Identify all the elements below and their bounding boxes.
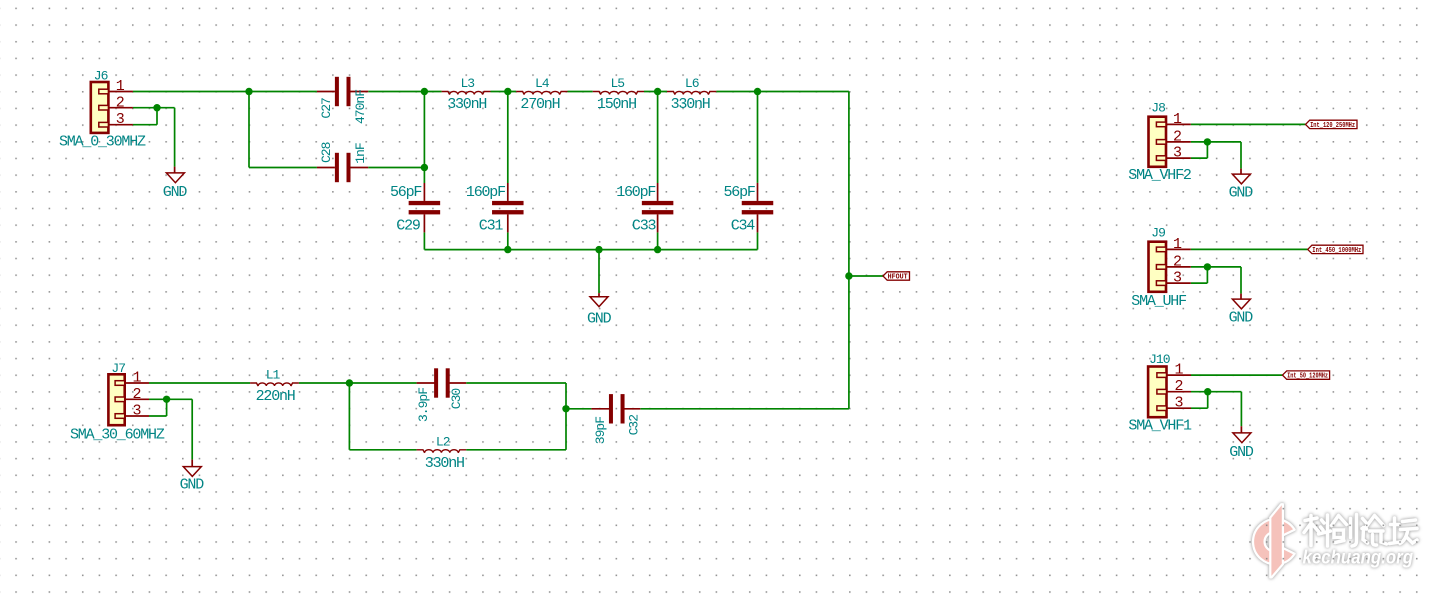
- svg-text:C28: C28: [319, 142, 334, 163]
- svg-text:2: 2: [116, 95, 125, 112]
- svg-text:330nH: 330nH: [671, 96, 710, 113]
- svg-text:3: 3: [132, 403, 141, 420]
- svg-text:2: 2: [132, 386, 141, 403]
- svg-text:SMA_UHF: SMA_UHF: [1131, 293, 1186, 310]
- svg-text:1: 1: [1174, 362, 1183, 379]
- svg-text:J6: J6: [94, 68, 108, 83]
- svg-text:39pF: 39pF: [593, 417, 608, 444]
- svg-text:SMA_0_30MHZ: SMA_0_30MHZ: [59, 134, 146, 151]
- svg-text:C29: C29: [396, 218, 420, 235]
- svg-text:C33: C33: [632, 218, 657, 235]
- svg-text:SMA_VHF1: SMA_VHF1: [1128, 418, 1192, 435]
- svg-text:GND: GND: [1229, 310, 1254, 327]
- svg-text:1nF: 1nF: [353, 143, 368, 164]
- svg-text:GND: GND: [1229, 184, 1254, 201]
- svg-text:3: 3: [1174, 395, 1183, 412]
- svg-text:J8: J8: [1151, 100, 1165, 115]
- svg-text:SMA_VHF2: SMA_VHF2: [1128, 167, 1191, 184]
- svg-text:1: 1: [1173, 236, 1182, 253]
- svg-text:L4: L4: [535, 76, 550, 91]
- svg-text:160pF: 160pF: [616, 184, 655, 201]
- svg-text:3: 3: [1173, 270, 1182, 287]
- svg-text:SMA_30_60MHZ: SMA_30_60MHZ: [70, 426, 165, 443]
- svg-text:470nF: 470nF: [353, 90, 368, 124]
- svg-text:L1: L1: [266, 367, 281, 382]
- svg-text:Int_50_120MHz: Int_50_120MHz: [1287, 373, 1328, 381]
- svg-text:J7: J7: [111, 361, 125, 376]
- svg-text:1: 1: [132, 370, 141, 387]
- svg-text:160pF: 160pF: [466, 184, 505, 201]
- svg-text:1: 1: [1173, 111, 1182, 128]
- svg-text:HFOUT: HFOUT: [888, 274, 908, 282]
- svg-text:2: 2: [1174, 378, 1183, 395]
- svg-text:J10: J10: [1149, 352, 1170, 367]
- svg-text:56pF: 56pF: [724, 184, 755, 201]
- svg-text:270nH: 270nH: [520, 96, 559, 113]
- svg-text:330nH: 330nH: [425, 455, 464, 472]
- svg-text:C32: C32: [627, 415, 642, 436]
- svg-text:1: 1: [116, 78, 125, 95]
- svg-text:C31: C31: [479, 218, 504, 235]
- svg-text:J9: J9: [1151, 225, 1165, 240]
- svg-text:330nH: 330nH: [447, 96, 486, 113]
- svg-text:220nH: 220nH: [256, 388, 295, 405]
- svg-text:GND: GND: [1229, 444, 1254, 461]
- svg-text:56pF: 56pF: [390, 184, 421, 201]
- svg-text:3.9pF: 3.9pF: [416, 388, 431, 422]
- svg-text:Int_450_1000MHz: Int_450_1000MHz: [1312, 247, 1361, 255]
- svg-text:C27: C27: [319, 98, 334, 119]
- svg-text:GND: GND: [180, 477, 205, 494]
- svg-text:L3: L3: [461, 76, 475, 91]
- svg-text:2: 2: [1173, 253, 1182, 270]
- svg-text:150nH: 150nH: [597, 96, 636, 113]
- svg-text:Int_120_250MHz: Int_120_250MHz: [1310, 122, 1355, 130]
- svg-text:2: 2: [1173, 128, 1182, 145]
- svg-text:3: 3: [1173, 145, 1182, 162]
- svg-text:GND: GND: [587, 311, 612, 328]
- svg-text:L6: L6: [685, 76, 699, 91]
- svg-text:C30: C30: [449, 389, 464, 410]
- svg-text:3: 3: [116, 111, 125, 128]
- svg-text:L2: L2: [436, 434, 450, 449]
- svg-text:L5: L5: [611, 76, 625, 91]
- svg-text:C34: C34: [731, 218, 756, 235]
- svg-text:GND: GND: [163, 184, 188, 201]
